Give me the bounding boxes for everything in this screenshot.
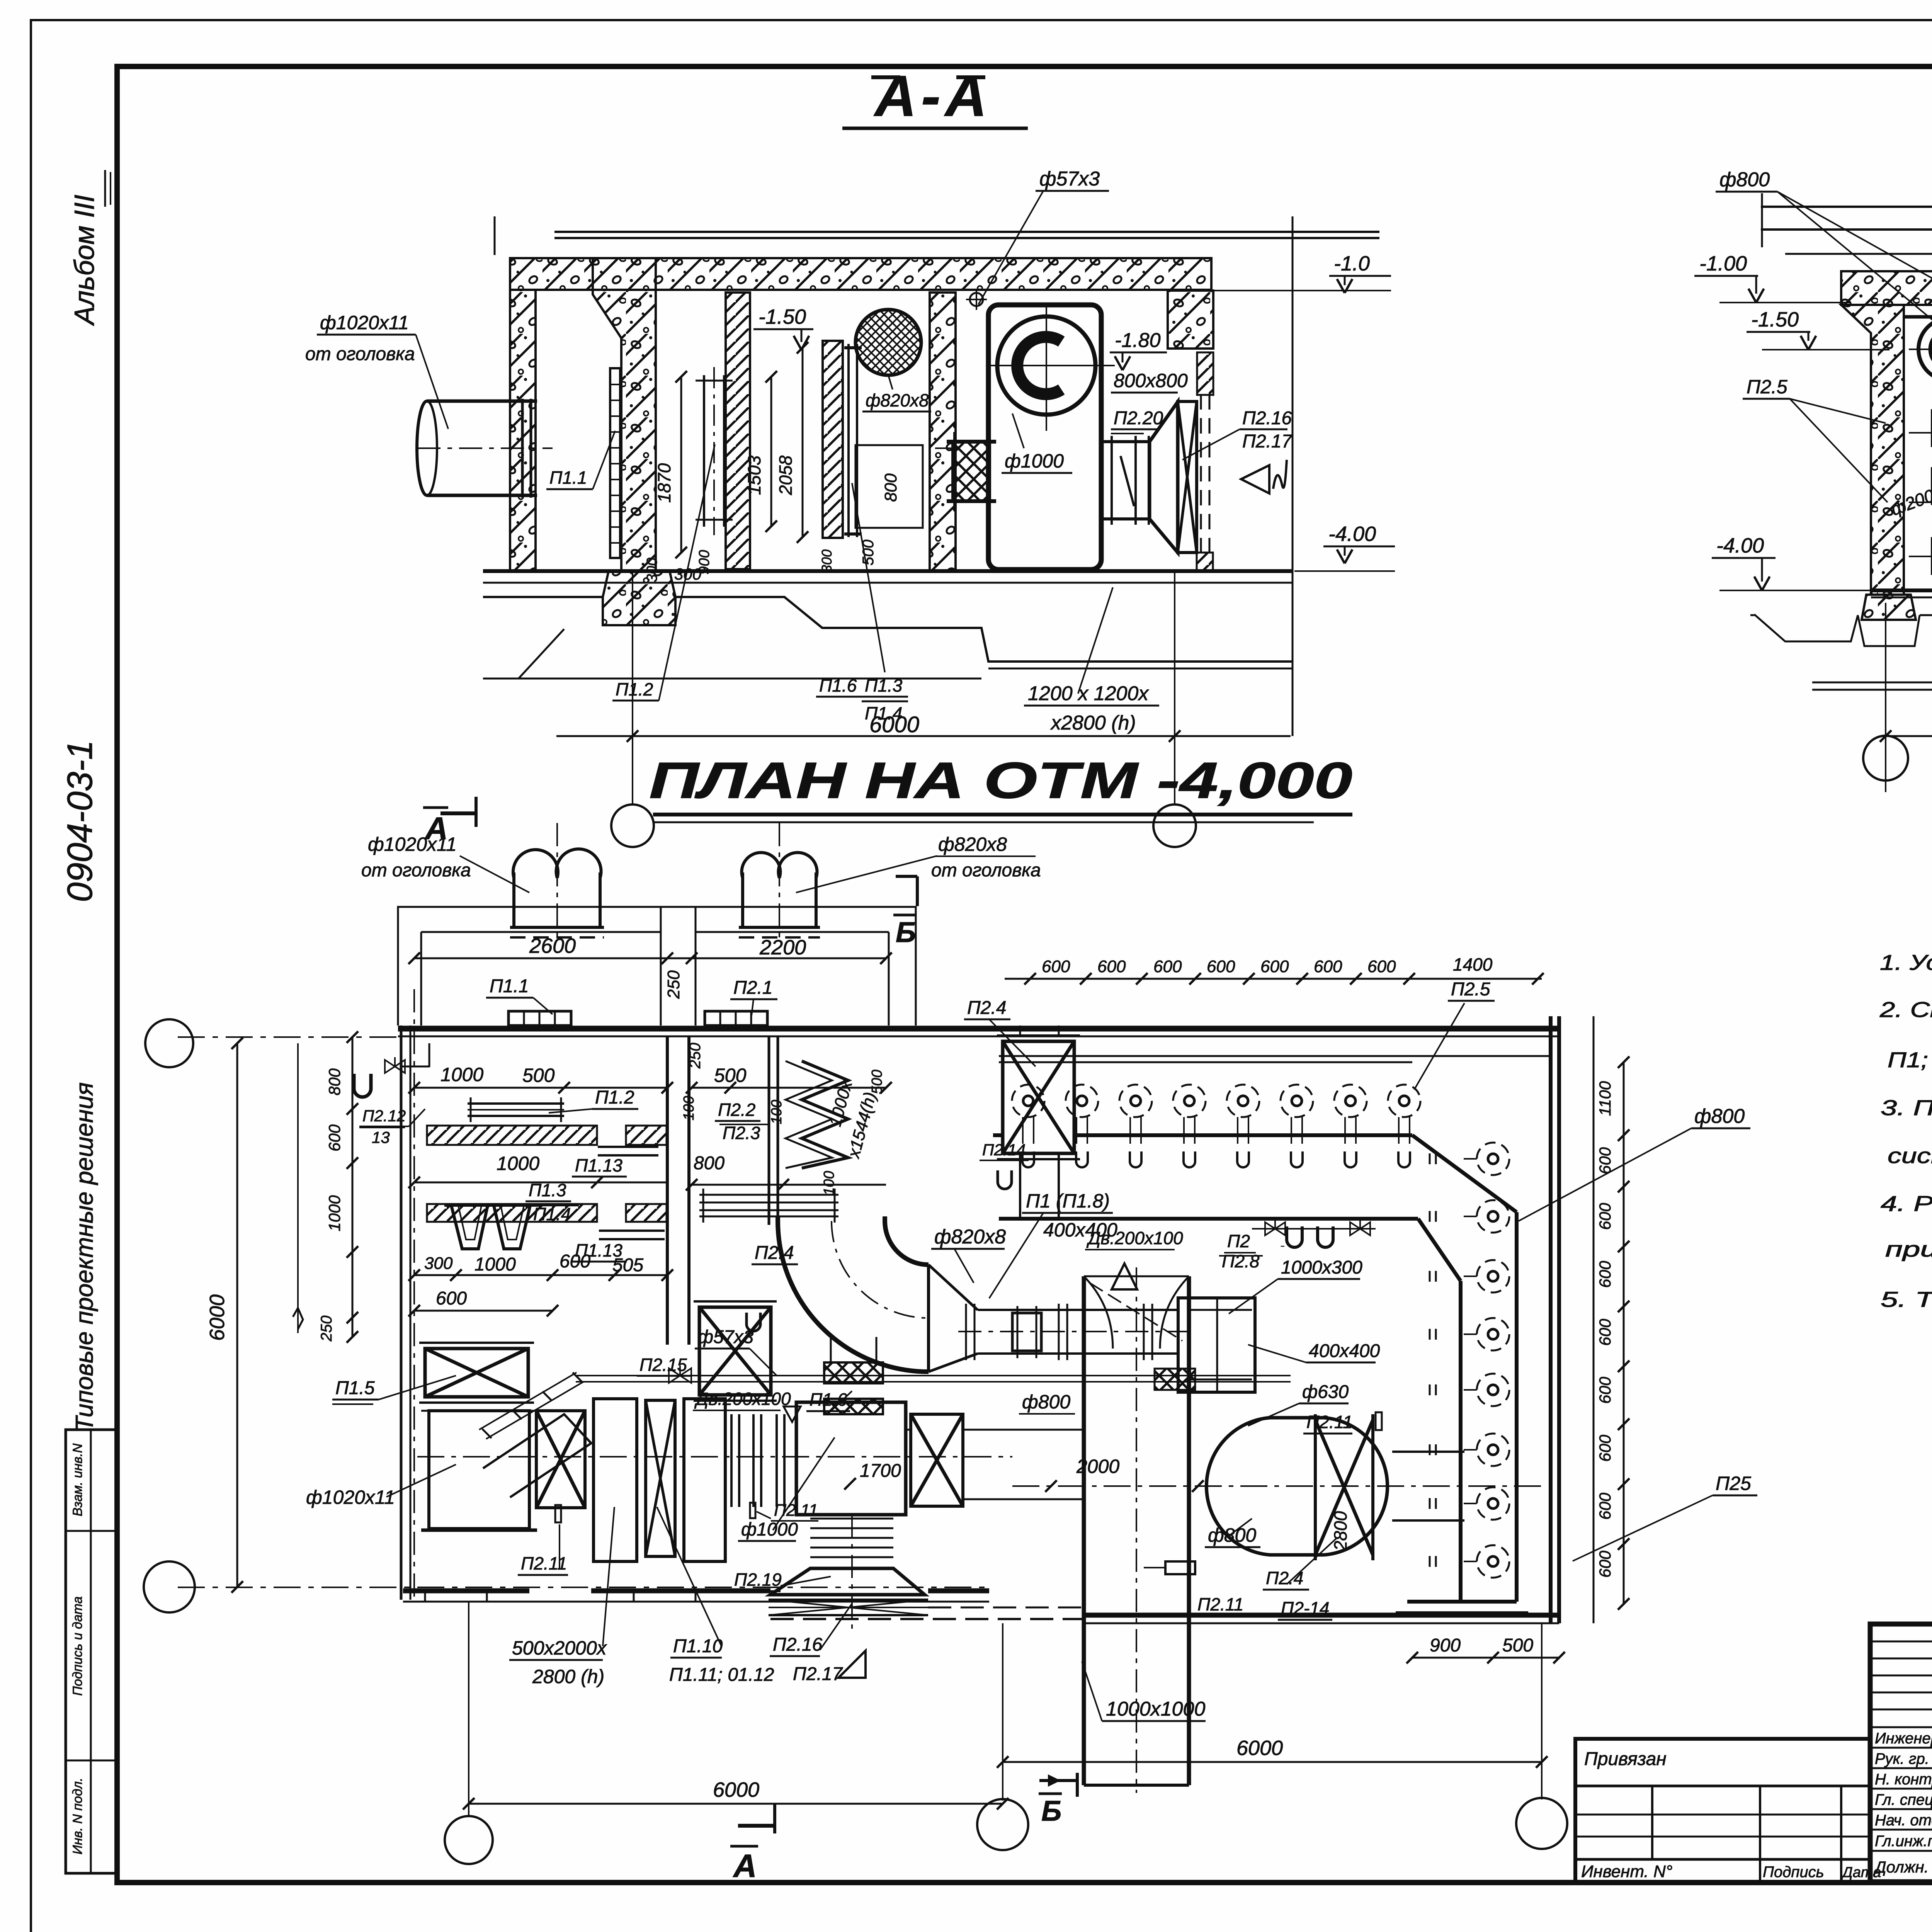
svg-text:ф1000: ф1000 xyxy=(741,1519,798,1540)
svg-text:от оголовка: от оголовка xyxy=(305,344,415,364)
svg-text:500: 500 xyxy=(860,540,877,566)
svg-text:Дв.200х100: Дв.200х100 xyxy=(1086,1228,1183,1248)
svg-text:600: 600 xyxy=(1207,957,1235,976)
svg-text:1. Условные обозначения: 1. Условные обозначения ст. лист ОВ-13. xyxy=(1880,950,1932,975)
svg-text:А-А: А-А xyxy=(873,63,992,128)
svg-text:Инженер.: Инженер. xyxy=(1875,1730,1932,1747)
svg-text:1000: 1000 xyxy=(325,1195,344,1231)
svg-text:1200 х 1200х: 1200 х 1200х xyxy=(1028,682,1149,705)
svg-text:П2.8: П2.8 xyxy=(1222,1251,1260,1271)
svg-text:1400: 1400 xyxy=(1453,954,1493,975)
svg-text:400х400: 400х400 xyxy=(1309,1341,1380,1361)
svg-text:ф820х8: ф820х8 xyxy=(938,833,1007,855)
svg-text:1100: 1100 xyxy=(1596,1081,1614,1116)
svg-text:П1; П2 ст. лист ОВ-8.: П1; П2 ст. лист ОВ-8. xyxy=(1888,1048,1932,1072)
svg-text:13: 13 xyxy=(372,1128,390,1146)
svg-text:1870: 1870 xyxy=(654,463,674,503)
svg-text:2600: 2600 xyxy=(529,934,576,957)
svg-text:600: 600 xyxy=(1596,1260,1614,1288)
svg-text:600: 600 xyxy=(1596,1434,1614,1462)
svg-text:1700: 1700 xyxy=(860,1461,901,1481)
svg-text:600: 600 xyxy=(1260,957,1289,976)
svg-text:250: 250 xyxy=(664,970,683,999)
svg-text:Привязан: Привязан xyxy=(1584,1749,1667,1769)
svg-text:П2.4: П2.4 xyxy=(755,1243,794,1263)
svg-text:500х2000х: 500х2000х xyxy=(512,1637,607,1659)
svg-text:П1.11; 01.12: П1.11; 01.12 xyxy=(669,1665,774,1685)
svg-text:от оголовка: от оголовка xyxy=(361,860,471,881)
svg-text:П2.5: П2.5 xyxy=(1451,979,1490,1000)
svg-text:систем ст. лист ОВ-13.: систем ст. лист ОВ-13. xyxy=(1888,1143,1932,1168)
svg-text:П2.17: П2.17 xyxy=(1242,431,1293,452)
svg-text:600: 600 xyxy=(1097,957,1126,976)
svg-text:600: 600 xyxy=(1596,1550,1614,1578)
svg-text:П2.11: П2.11 xyxy=(1197,1594,1243,1614)
svg-text:600: 600 xyxy=(1153,957,1182,976)
svg-text:П2.2: П2.2 xyxy=(718,1100,755,1120)
svg-text:ПЛАН НА ОТМ -4,000: ПЛАН НА ОТМ -4,000 xyxy=(649,752,1352,809)
svg-text:-1.50: -1.50 xyxy=(759,305,806,328)
svg-text:ф800: ф800 xyxy=(1208,1524,1256,1546)
svg-text:Подпись: Подпись xyxy=(1763,1864,1824,1881)
svg-text:-4.00: -4.00 xyxy=(1328,522,1376,546)
svg-text:1000: 1000 xyxy=(497,1153,539,1174)
svg-text:1503: 1503 xyxy=(744,455,764,495)
svg-text:П2.16: П2.16 xyxy=(773,1634,823,1655)
svg-text:Взам. инв.N: Взам. инв.N xyxy=(70,1443,85,1516)
svg-text:1000х1000: 1000х1000 xyxy=(1106,1698,1205,1720)
svg-text:П2.11: П2.11 xyxy=(1306,1412,1352,1432)
svg-text:800: 800 xyxy=(881,473,900,502)
svg-text:600: 600 xyxy=(1596,1492,1614,1520)
svg-text:П2.3: П2.3 xyxy=(723,1123,760,1143)
svg-text:Рук. гр.: Рук. гр. xyxy=(1875,1750,1929,1767)
svg-text:П1.5: П1.5 xyxy=(335,1378,375,1398)
svg-text:600: 600 xyxy=(1367,957,1396,976)
svg-text:2058: 2058 xyxy=(776,455,796,495)
svg-text:600: 600 xyxy=(1596,1202,1614,1230)
svg-text:800: 800 xyxy=(325,1068,344,1095)
svg-text:1000х300: 1000х300 xyxy=(1281,1246,1285,1247)
svg-text:-1.50: -1.50 xyxy=(1751,308,1799,331)
svg-text:500: 500 xyxy=(714,1065,747,1086)
svg-text:Инвент. N°: Инвент. N° xyxy=(1581,1862,1672,1881)
svg-text:4. Размер воздуховода в: 4. Размер воздуховода в основное помещен… xyxy=(1881,1191,1932,1216)
svg-text:2800: 2800 xyxy=(1330,1511,1350,1551)
svg-text:П2: П2 xyxy=(1227,1231,1250,1251)
svg-text:П1.1: П1.1 xyxy=(549,468,587,488)
svg-text:Б: Б xyxy=(1041,1795,1061,1827)
svg-text:Дата: Дата xyxy=(1841,1864,1881,1881)
svg-text:0904-03-1: 0904-03-1 xyxy=(60,740,100,902)
svg-text:П1.2: П1.2 xyxy=(616,679,653,699)
svg-text:800: 800 xyxy=(694,1153,724,1173)
svg-text:-1.80: -1.80 xyxy=(1115,329,1161,352)
svg-text:П2.20: П2.20 xyxy=(1114,408,1163,429)
svg-text:600: 600 xyxy=(560,1251,590,1272)
svg-text:П2.15: П2.15 xyxy=(639,1355,687,1375)
svg-text:Гл. спец.: Гл. спец. xyxy=(1875,1791,1932,1808)
svg-text:П1.3: П1.3 xyxy=(529,1180,566,1200)
svg-text:-4.00: -4.00 xyxy=(1716,534,1764,557)
svg-text:250: 250 xyxy=(318,1316,335,1342)
svg-text:300: 300 xyxy=(424,1254,453,1273)
svg-text:Типовые проектные решения: Типовые проектные решения xyxy=(70,1082,98,1432)
svg-text:6000: 6000 xyxy=(1236,1736,1283,1760)
svg-text:Н. контр: Н. контр xyxy=(1875,1771,1932,1788)
svg-text:600: 600 xyxy=(436,1288,467,1309)
svg-text:П2.11: П2.11 xyxy=(774,1501,818,1520)
svg-text:Б: Б xyxy=(896,916,916,948)
svg-text:100: 100 xyxy=(681,1096,697,1120)
svg-text:ф630: ф630 xyxy=(1302,1382,1349,1402)
svg-text:П1.10: П1.10 xyxy=(673,1636,723,1656)
svg-text:600: 600 xyxy=(325,1124,344,1151)
svg-text:П2.19: П2.19 xyxy=(734,1570,782,1590)
svg-text:-1.0: -1.0 xyxy=(1334,252,1370,275)
svg-text:2200: 2200 xyxy=(759,936,806,959)
svg-text:2800 (h): 2800 (h) xyxy=(532,1666,604,1687)
svg-text:100: 100 xyxy=(769,1100,785,1124)
svg-text:П2.4: П2.4 xyxy=(1266,1568,1303,1588)
svg-text:П2.4: П2.4 xyxy=(967,998,1007,1018)
svg-text:ф1020х11: ф1020х11 xyxy=(320,312,409,333)
svg-text:от оголовка: от оголовка xyxy=(931,860,1041,881)
svg-text:500: 500 xyxy=(1502,1635,1533,1656)
svg-text:1000: 1000 xyxy=(440,1064,483,1085)
svg-text:ф800: ф800 xyxy=(1022,1391,1070,1413)
svg-text:2000: 2000 xyxy=(1076,1456,1119,1477)
svg-text:505: 505 xyxy=(612,1255,643,1276)
svg-text:Нач. отд.: Нач. отд. xyxy=(1875,1812,1932,1829)
svg-text:ф800: ф800 xyxy=(1719,168,1770,191)
svg-text:х2800 (h): х2800 (h) xyxy=(1050,712,1136,734)
svg-text:ф820х8: ф820х8 xyxy=(866,390,929,410)
svg-text:ф57х3: ф57х3 xyxy=(1039,168,1100,190)
svg-text:П2.16: П2.16 xyxy=(1242,408,1292,429)
svg-text:Гл.инж.пр.: Гл.инж.пр. xyxy=(1875,1833,1932,1850)
svg-text:П2.5: П2.5 xyxy=(1747,376,1787,398)
svg-text:ф1020х11: ф1020х11 xyxy=(368,833,457,855)
svg-text:П1.2: П1.2 xyxy=(595,1087,634,1108)
svg-text:ф57х3: ф57х3 xyxy=(698,1327,753,1347)
svg-text:А: А xyxy=(733,1848,757,1884)
svg-text:600: 600 xyxy=(1042,957,1070,976)
svg-text:Подпись и дата: Подпись и дата xyxy=(70,1596,85,1696)
svg-text:П1 (П1.8): П1 (П1.8) xyxy=(1026,1190,1110,1212)
svg-text:600: 600 xyxy=(1314,957,1342,976)
svg-text:500: 500 xyxy=(522,1065,555,1086)
svg-text:6000: 6000 xyxy=(206,1294,229,1341)
svg-text:ф1020х11: ф1020х11 xyxy=(306,1486,395,1508)
svg-text:ф800: ф800 xyxy=(1694,1105,1745,1128)
svg-text:П1.13: П1.13 xyxy=(575,1155,622,1175)
svg-text:1000х300: 1000х300 xyxy=(1281,1257,1362,1278)
svg-text:при привязке проекта.: при привязке проекта. xyxy=(1885,1237,1932,1261)
svg-text:900: 900 xyxy=(1430,1635,1461,1656)
svg-text:800х800: 800х800 xyxy=(1114,370,1188,391)
svg-text:6000: 6000 xyxy=(713,1778,759,1801)
svg-text:-1.00: -1.00 xyxy=(1699,252,1747,275)
svg-text:Альбом III: Альбом III xyxy=(69,195,100,326)
svg-text:П2.1: П2.1 xyxy=(733,978,773,998)
svg-text:5. Тип калориферов опр: 5. Тип калориферов определяется при прое… xyxy=(1881,1287,1932,1311)
svg-text:П2.17: П2.17 xyxy=(793,1664,844,1684)
svg-text:1000: 1000 xyxy=(474,1254,516,1275)
svg-text:600: 600 xyxy=(1596,1318,1614,1346)
svg-text:П2.12: П2.12 xyxy=(362,1107,406,1125)
svg-text:ф1000: ф1000 xyxy=(1005,450,1064,472)
svg-text:1000х: 1000х xyxy=(826,1078,856,1128)
svg-text:ф820х8: ф820х8 xyxy=(934,1226,1006,1248)
svg-text:6000: 6000 xyxy=(869,712,919,737)
svg-text:2. Спецификацию вентиляцион: 2. Спецификацию вентиляционного оборудов… xyxy=(1879,997,1932,1022)
svg-text:250: 250 xyxy=(687,1043,704,1069)
svg-text:Инв. N подл.: Инв. N подл. xyxy=(70,1778,85,1855)
svg-text:500: 500 xyxy=(869,1070,885,1094)
svg-text:П1.1: П1.1 xyxy=(490,976,529,997)
svg-text:Должн.: Должн. xyxy=(1873,1858,1929,1876)
svg-text:П25: П25 xyxy=(1716,1473,1751,1494)
svg-text:3. Принципиальную схему р: 3. Принципиальную схему работы вентиляци… xyxy=(1881,1095,1932,1120)
svg-text:600: 600 xyxy=(1596,1147,1614,1174)
svg-text:600: 600 xyxy=(1596,1376,1614,1404)
